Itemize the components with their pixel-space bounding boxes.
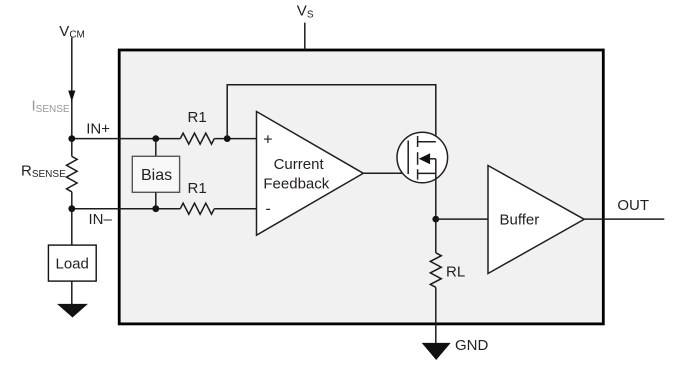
- bias block: [132, 156, 179, 192]
- node feedback/R1 summing junction: [224, 135, 231, 142]
- svg-text:Bias: Bias: [141, 167, 172, 184]
- ground symbol GND: [422, 343, 451, 360]
- wire op-amp output to Q1 gate: [363, 172, 408, 174]
- resistor RSENSE: [67, 139, 78, 209]
- svg-text:-: -: [266, 201, 271, 218]
- resistor R1 (lower): [180, 203, 214, 214]
- wire buffer output to OUT: [584, 218, 664, 220]
- wire IN+ rail left segment: [72, 138, 181, 140]
- wire VCM to IN+ node: [71, 38, 73, 139]
- wire bias top connection: [155, 139, 157, 157]
- transistor Q1 (NMOS power FET): [397, 132, 448, 183]
- svg-text:R1: R1: [188, 180, 207, 197]
- svg-text:OUT: OUT: [617, 197, 649, 214]
- resistor R1 (upper): [180, 133, 214, 144]
- wire output node to RL: [435, 219, 437, 253]
- wire bias bottom connection: [155, 192, 157, 208]
- ISENSE current direction arrow: [68, 91, 75, 102]
- wire IN- node to load: [71, 209, 73, 245]
- svg-text:Current: Current: [274, 156, 325, 173]
- svg-text:VS: VS: [297, 3, 314, 21]
- wire R1 upper to summing node and op-amp + input: [214, 138, 256, 140]
- wire feedback loop: [227, 85, 436, 142]
- svg-text:RSENSE: RSENSE: [21, 162, 66, 180]
- ground symbol (load): [57, 304, 88, 318]
- node IN- junction: [68, 205, 75, 212]
- node output junction: [432, 216, 439, 223]
- svg-text:IN–: IN–: [89, 211, 113, 228]
- op-amp U2 Current Feedback amplifier: [257, 112, 364, 236]
- wire IN- rail left segment: [72, 208, 181, 210]
- resistor RL: [430, 253, 441, 287]
- VS supply stub wire: [304, 23, 306, 50]
- wire R1 lower to op-amp - input: [214, 208, 256, 210]
- svg-text:IN+: IN+: [86, 121, 110, 138]
- wire RL to GND: [435, 287, 437, 346]
- svg-text:ISENSE: ISENSE: [32, 97, 70, 115]
- wire load to ground: [71, 281, 73, 305]
- svg-text:GND: GND: [455, 337, 489, 354]
- buffer amplifier U3: [488, 166, 584, 274]
- wire Q1 source to output node: [435, 173, 437, 219]
- svg-text:Feedback: Feedback: [263, 175, 329, 192]
- wire output node to buffer input: [436, 218, 488, 220]
- node IN+ junction: [68, 135, 75, 142]
- svg-text:+: +: [263, 132, 272, 149]
- svg-text:RL: RL: [446, 263, 465, 280]
- IC body box U1: [119, 50, 603, 324]
- svg-text:R1: R1: [188, 109, 207, 126]
- node bias bottom junction: [152, 205, 159, 212]
- svg-text:Load: Load: [56, 256, 89, 273]
- node bias top junction: [152, 135, 159, 142]
- load block: [48, 245, 96, 281]
- svg-text:Buffer: Buffer: [500, 212, 540, 229]
